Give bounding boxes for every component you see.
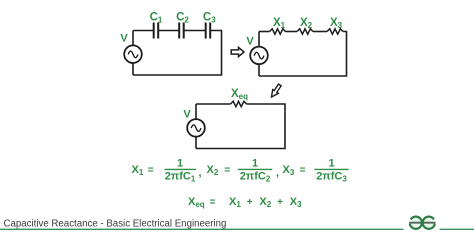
formula X1 = 1/(2 pi f C1) — [132, 158, 202, 184]
svg-text:=: = — [210, 197, 216, 208]
svg-text:C1: C1 — [150, 12, 163, 25]
svg-text:1: 1 — [328, 158, 334, 170]
hollow right arrow between circuits — [231, 47, 244, 56]
wire top segment 1 (circuit 3) — [196, 103, 231, 105]
svg-text:C2: C2 — [176, 12, 189, 25]
wire left upper (circuit 3) — [195, 104, 197, 119]
wire top segment 2 — [286, 31, 298, 33]
svg-text:X2: X2 — [259, 196, 271, 209]
svg-text:X2: X2 — [207, 164, 219, 177]
svg-text:X3: X3 — [283, 164, 295, 177]
svg-text:,: , — [276, 167, 279, 179]
label V (circuit 2) — [246, 36, 254, 48]
svg-text:X3: X3 — [330, 17, 343, 30]
resistor Xeq — [231, 101, 247, 106]
wire top segment 2 — [158, 30, 179, 32]
resistor X1 — [270, 29, 286, 34]
svg-text:1: 1 — [252, 158, 258, 170]
capacitor C2 — [179, 23, 184, 39]
svg-text:2πfC3: 2πfC3 — [316, 171, 347, 184]
formula X3 = 1/(2 pi f C3) — [283, 158, 349, 184]
svg-text:V: V — [183, 109, 191, 121]
svg-text:=: = — [224, 165, 230, 176]
svg-text:=: = — [300, 165, 306, 176]
footer rule right — [440, 228, 474, 230]
wire top segment 4 + right side + bottom — [259, 32, 347, 77]
svg-text:V: V — [246, 36, 254, 48]
footer rule left — [0, 228, 404, 230]
wire left lower (circuit 2) — [258, 64, 260, 76]
capacitor C1 — [154, 23, 159, 39]
footer caption — [4, 219, 227, 230]
svg-text:2πfC1: 2πfC1 — [165, 171, 196, 184]
svg-text:+: + — [277, 197, 283, 208]
label V (circuit 3) — [183, 109, 191, 121]
svg-text:Capacitive Reactance - Basic E: Capacitive Reactance - Basic Electrical … — [4, 219, 227, 230]
svg-text:Xeq: Xeq — [188, 196, 205, 209]
svg-text:X1: X1 — [132, 164, 144, 177]
wire top segment 3 — [184, 30, 206, 32]
svg-text:1: 1 — [177, 158, 183, 170]
wire left upper (circuit 2) — [258, 32, 260, 47]
svg-text:Xeq: Xeq — [231, 88, 248, 101]
label X3 — [330, 17, 343, 30]
GeeksforGeeks logo — [409, 217, 435, 229]
label X2 — [300, 17, 313, 30]
svg-text:,: , — [199, 167, 202, 179]
svg-text:X1: X1 — [273, 17, 286, 30]
svg-text:X3: X3 — [290, 196, 302, 209]
AC source V (circuit 1) — [124, 45, 142, 63]
wire left lower (circuit 3) — [195, 137, 197, 149]
resistor X2 — [297, 29, 313, 34]
svg-text:+: + — [247, 197, 253, 208]
label V (circuit 1) — [120, 33, 128, 45]
svg-text:2πfC2: 2πfC2 — [240, 171, 271, 184]
wire top segment 1 — [133, 30, 154, 32]
wire left lower — [132, 63, 134, 75]
capacitor C3 — [206, 23, 211, 39]
wire top segment 3 — [313, 31, 327, 33]
wire top segment 4 + right side + bottom — [133, 31, 222, 76]
svg-text:V: V — [120, 33, 128, 45]
svg-text:X2: X2 — [300, 17, 313, 30]
label C1 — [150, 12, 163, 25]
svg-text:=: = — [148, 165, 154, 176]
resistor X3 — [327, 29, 343, 34]
AC source V (circuit 3) — [187, 119, 205, 137]
label X1 — [273, 17, 286, 30]
label Xeq — [231, 88, 248, 101]
svg-text:X1: X1 — [229, 196, 241, 209]
wire top segment 1 — [259, 31, 270, 33]
hollow curved arrow pointing down-left — [272, 84, 282, 97]
formula X2 = 1/(2 pi f C2) — [207, 158, 280, 184]
label C2 — [176, 12, 189, 25]
wire top segment 2 + right side + bottom (circuit 3) — [196, 104, 285, 149]
svg-text:C3: C3 — [203, 12, 216, 25]
AC source V (circuit 2) — [250, 47, 268, 65]
label C3 — [203, 12, 216, 25]
wire left upper — [132, 31, 134, 46]
formula Xeq = X1 + X2 + X3 — [188, 196, 302, 209]
